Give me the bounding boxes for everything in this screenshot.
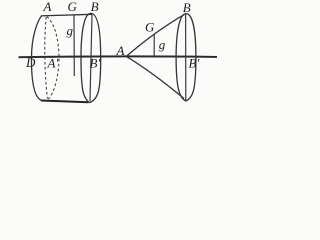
cone base ellipse bbox=[176, 14, 196, 101]
svg-text:A: A bbox=[116, 43, 125, 58]
cone upper slant A-B bbox=[126, 14, 184, 56]
generator line G-g (cylinder mid vertical) bbox=[73, 15, 75, 76]
svg-text:B′: B′ bbox=[189, 56, 200, 71]
cylinder bottom edge bbox=[41, 101, 89, 103]
svg-text:D: D bbox=[25, 55, 36, 70]
cone lower slant bbox=[126, 56, 184, 98]
dashed vertical diameter A-A' of left cap bbox=[45, 17, 48, 99]
vertical diameter B-B' of right cap bbox=[90, 15, 92, 101]
cylinder right end ellipse (solid) bbox=[81, 13, 101, 102]
svg-text:g: g bbox=[67, 23, 74, 38]
svg-text:B′: B′ bbox=[90, 56, 101, 71]
svg-text:B: B bbox=[183, 0, 191, 15]
cylinder top edge A-B bbox=[41, 14, 92, 16]
cone vertical diameter B-B' bbox=[185, 14, 187, 100]
axis line D-B' (horizontal axis of rotation) bbox=[19, 55, 218, 58]
cylinder left cap silhouette arc (solid left half of end ellipse) bbox=[31, 16, 41, 101]
svg-text:A′: A′ bbox=[47, 56, 59, 71]
svg-text:A: A bbox=[43, 0, 52, 14]
svg-text:G: G bbox=[145, 20, 155, 35]
cylinder left cap hidden right half (dashed) bbox=[47, 17, 59, 100]
cone generator g line G to axis bbox=[153, 34, 155, 56]
svg-text:G: G bbox=[68, 0, 78, 14]
svg-text:g: g bbox=[159, 37, 166, 52]
svg-text:B: B bbox=[91, 0, 99, 14]
